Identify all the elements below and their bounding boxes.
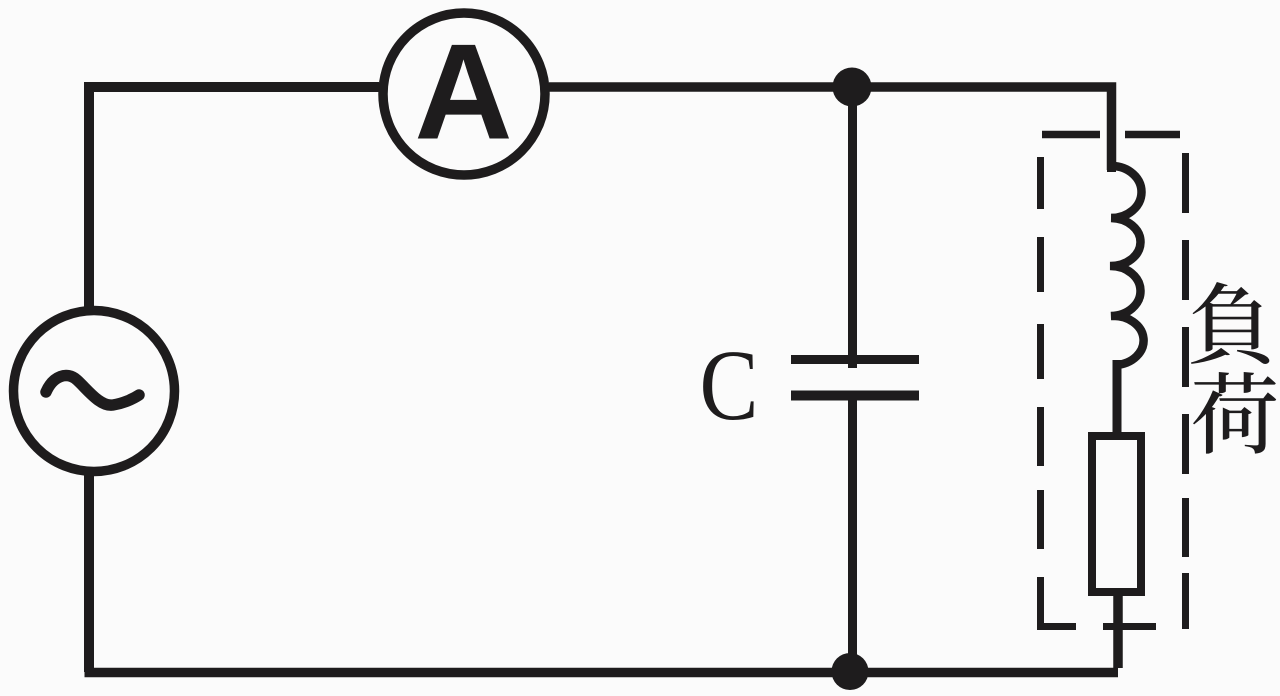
wire top-left from source corner to ammeter	[89, 82, 379, 87]
load label kanji 負 (fu)	[1191, 282, 1269, 364]
node A junction dot (top)	[833, 68, 872, 107]
AC source sine symbol	[46, 376, 139, 406]
wire left vertical from AC source to bottom	[84, 470, 94, 672]
AC source G1 circle	[14, 311, 175, 472]
node B junction dot (bottom)	[832, 653, 869, 690]
wire left vertical from corner to AC source	[84, 84, 94, 312]
capacitor C bottom plate	[791, 391, 919, 401]
svg-text:C: C	[700, 329, 759, 441]
inductor L1 coil (4 arcs)	[1110, 166, 1144, 365]
load box dashed outline: left side	[1037, 157, 1044, 626]
wire bottom from source to load branch	[85, 668, 1119, 678]
capacitor C top plate	[791, 355, 919, 364]
load box dashed outline: bottom-left corner and bottom side	[1037, 623, 1156, 630]
load label kanji 荷 (ka)	[1193, 372, 1276, 454]
svg-text:A: A	[414, 16, 512, 168]
resistor R1 body	[1092, 436, 1141, 592]
wire resistor to bottom wire	[1113, 596, 1123, 668]
wire load branch vertical stub above inductor	[1107, 166, 1116, 172]
wire top from ammeter to node A and corner at load branch	[549, 87, 1112, 170]
load box dashed outline: top side	[1042, 131, 1180, 139]
wire capacitor branch upper (node A to top plate)	[848, 87, 857, 368]
ammeter A1 circle	[383, 13, 545, 175]
wire capacitor branch lower (bottom plate to node B)	[848, 396, 857, 672]
wire inductor to resistor	[1113, 360, 1122, 436]
load box dashed outline: right side	[1182, 153, 1189, 629]
